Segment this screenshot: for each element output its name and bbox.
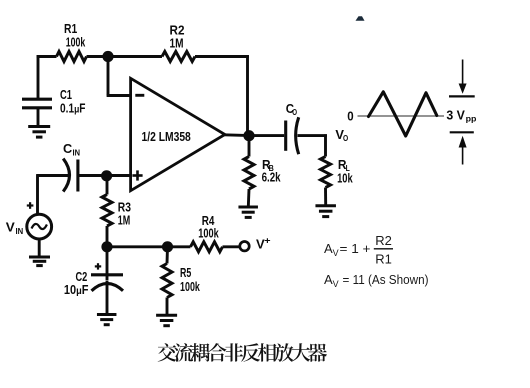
svg-text:+: + [264,236,271,247]
formula Av = 11 [324,272,429,289]
label R1 100k [64,22,85,50]
arrow upper marker [449,60,475,97]
svg-text:= 11 (As Shown): = 11 (As Shown) [343,272,429,287]
svg-text:R1: R1 [64,22,77,36]
resistor R1 [57,52,87,62]
node feedback junction [102,51,113,62]
wire C1 branch [37,55,40,98]
source VIN [27,214,52,239]
ground below RL [315,206,336,217]
label RB 6.2k [262,158,281,185]
ground below VIN [29,257,50,266]
label 3 Vpp [446,108,476,123]
blue mark artifact [356,16,365,21]
resistor RB [244,136,254,207]
node bias right junction [162,241,173,252]
svg-text:R1: R1 [375,251,392,266]
svg-text:R2: R2 [170,24,185,38]
ground below RB [238,207,258,217]
label R5 100k [180,266,200,294]
svg-text:1M: 1M [118,213,131,227]
label R3 1M [118,201,131,228]
plus mark C2 [95,263,101,269]
ground below C2 [97,315,117,325]
plus mark VIN [27,202,34,209]
label C1 0.1uF [60,88,86,116]
svg-text:3 V: 3 V [446,108,465,122]
wire C2 to ground [106,281,109,315]
label R4 100k [198,214,218,241]
label CIN [63,142,80,157]
label C2 10uF [64,270,89,297]
svg-text:C: C [63,142,72,156]
resistor RL [321,157,331,206]
capacitor C1 [22,99,52,108]
arrow lower marker [450,132,474,164]
svg-text:IN: IN [16,226,24,236]
ground below C1 [28,127,50,138]
node bias left junction [101,241,112,252]
op-amp U1 1/2 LM358 [131,78,225,190]
wire feedback right leg [246,55,249,137]
caption chinese title [158,343,327,362]
label R2 1M [170,24,185,51]
svg-text:pp: pp [466,113,477,123]
label VIN [6,221,23,236]
label VO [335,128,348,143]
svg-text:0.1μF: 0.1μF [60,101,86,115]
svg-text:R2: R2 [375,233,392,248]
wire bias rail [107,245,191,248]
svg-text:R5: R5 [180,266,191,280]
svg-text:1/2 LM358: 1/2 LM358 [142,130,191,144]
wire feedback node to inverting input [107,57,132,96]
svg-text:1M: 1M [170,37,184,51]
resistor R3 [102,176,112,247]
wire CO to RL [298,134,327,156]
label CO [286,102,298,117]
wire VIN to ground [38,239,41,257]
waveform axis [358,115,445,117]
node noninverting junction [101,170,112,181]
resistor R2 [162,52,195,62]
svg-text:C2: C2 [76,270,88,284]
svg-text:0: 0 [347,110,353,124]
svg-text:100k: 100k [180,280,200,294]
svg-text:O: O [343,133,348,143]
svg-text:10k: 10k [337,172,353,186]
svg-text:C1: C1 [60,88,72,102]
capacitor CIN [63,159,78,192]
svg-text:V: V [6,221,16,235]
resistor R5 [162,247,172,315]
svg-text:6.2k: 6.2k [262,170,281,184]
formula Av = 1 + R2/R1 [324,233,393,266]
wire C1 to ground [37,108,40,127]
capacitor C2 [91,245,123,290]
wire output to CO [224,133,284,137]
wire top rail [37,55,249,58]
waveform sine [369,92,437,136]
wire VIN branch [36,174,39,214]
ground below R5 [156,315,177,325]
svg-text:= 1 +: = 1 + [340,241,371,256]
svg-text:O: O [292,107,297,117]
svg-text:100k: 100k [198,226,218,240]
node output junction [243,130,254,141]
capacitor CO [286,117,299,154]
resistor R4 [191,242,240,252]
svg-text:100k: 100k [66,36,86,50]
wire noninverting input rail [37,174,132,177]
svg-text:IN: IN [73,148,81,158]
label RL 10k [337,158,353,186]
label 0 [347,110,353,124]
terminal V+ [240,236,271,252]
svg-text:10μF: 10μF [64,283,89,297]
